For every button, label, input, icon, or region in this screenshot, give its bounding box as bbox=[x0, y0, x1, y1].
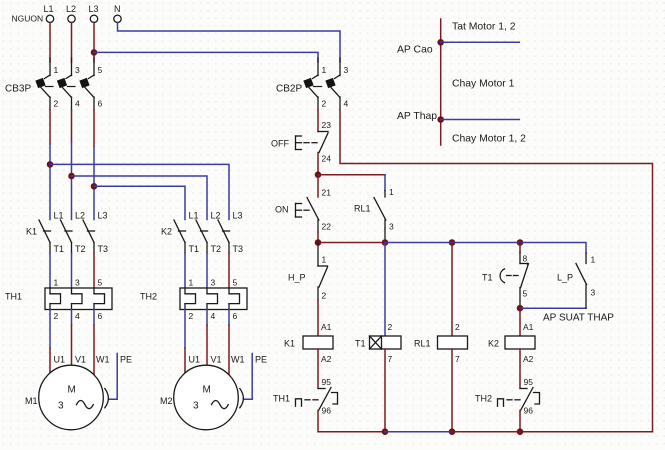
svg-text:L1: L1 bbox=[189, 211, 199, 221]
svg-text:CB3P: CB3P bbox=[5, 84, 31, 95]
svg-text:RL1: RL1 bbox=[354, 204, 371, 214]
timer coil T1 bbox=[370, 336, 402, 349]
wire feeder phase3 to K2 bbox=[94, 186, 185, 219]
svg-text:L2: L2 bbox=[66, 4, 76, 14]
node T1 bottom bbox=[382, 428, 389, 435]
svg-text:L2: L2 bbox=[75, 211, 85, 221]
svg-text:1: 1 bbox=[54, 278, 59, 288]
svg-text:AP Cao: AP Cao bbox=[397, 45, 433, 56]
wire K2 T2 to TH2 bbox=[206, 253, 208, 288]
wire K1 T2 to TH1 bbox=[71, 253, 73, 288]
wire PE motor 1 bbox=[109, 354, 117, 400]
legend node AP Cao bbox=[437, 39, 444, 46]
svg-text:A2: A2 bbox=[321, 354, 332, 364]
wire L2 to CB3P bbox=[71, 22, 73, 62]
svg-text:T1: T1 bbox=[355, 339, 366, 349]
svg-text:3: 3 bbox=[344, 65, 349, 75]
svg-text:M: M bbox=[203, 385, 211, 396]
svg-text:RL1: RL1 bbox=[414, 339, 431, 349]
thermal contact TH2 bbox=[498, 388, 540, 411]
breaker CB2P linkage dash bbox=[314, 86, 322, 88]
wire H_P to K1 coil bbox=[317, 287, 319, 336]
svg-text:95: 95 bbox=[322, 377, 332, 387]
svg-text:1: 1 bbox=[322, 255, 327, 265]
motor M2 bbox=[174, 365, 244, 430]
breaker CB2P pole 2 bbox=[325, 58, 340, 110]
overload relay TH1 body bbox=[45, 288, 112, 310]
node feeder junction phase3 bbox=[91, 183, 98, 190]
svg-text:U1: U1 bbox=[54, 355, 66, 365]
terminal N bbox=[114, 4, 121, 23]
svg-text:L1: L1 bbox=[44, 4, 54, 14]
wire K2 T1 to TH2 bbox=[184, 253, 186, 288]
timed contact T1 bbox=[519, 243, 521, 253]
control rail nodes bbox=[315, 239, 322, 246]
wire TH1 4 to motor V1 bbox=[71, 310, 73, 366]
svg-text:V1: V1 bbox=[75, 355, 86, 365]
svg-text:6: 6 bbox=[98, 99, 103, 109]
svg-text:PE: PE bbox=[120, 355, 132, 365]
wire CB3P pole3 out bbox=[93, 110, 95, 220]
svg-text:A2: A2 bbox=[523, 354, 534, 364]
svg-text:U1: U1 bbox=[189, 355, 201, 365]
legend stem wire bbox=[440, 19, 442, 145]
svg-text:TH1: TH1 bbox=[5, 292, 22, 302]
node RL1 bottom bbox=[449, 428, 456, 435]
svg-text:L3: L3 bbox=[98, 211, 108, 221]
wire TH1 contact to bottom rail bbox=[318, 411, 385, 432]
wire bottom rail maroon segment bbox=[452, 431, 653, 433]
svg-text:L1: L1 bbox=[54, 211, 64, 221]
svg-text:W1: W1 bbox=[231, 355, 245, 365]
breaker CB3P pole 3 bbox=[79, 58, 94, 110]
wire RL1 to rail bbox=[384, 228, 386, 243]
svg-text:2: 2 bbox=[322, 99, 327, 109]
wire T1 coil to bottom rail bbox=[384, 349, 386, 432]
motor M1 bbox=[39, 365, 109, 430]
svg-text:8: 8 bbox=[523, 254, 528, 264]
svg-text:22: 22 bbox=[322, 222, 332, 232]
svg-text:4: 4 bbox=[75, 99, 80, 109]
svg-text:3: 3 bbox=[75, 278, 80, 288]
terminal L2 bbox=[66, 4, 76, 23]
svg-text:M2: M2 bbox=[160, 396, 173, 406]
svg-text:NGUON: NGUON bbox=[12, 14, 44, 24]
svg-text:TH2: TH2 bbox=[475, 394, 492, 404]
wire OFF to junction bbox=[317, 153, 319, 175]
wire feeder phase2 to K2 bbox=[72, 176, 208, 220]
wire K2 T3 to TH2 bbox=[228, 253, 230, 288]
node feeder junction phase2 bbox=[68, 173, 75, 180]
contactor K2 pole 3 bbox=[218, 220, 230, 253]
svg-text:2: 2 bbox=[388, 322, 393, 332]
wire control rail left bbox=[318, 242, 385, 244]
legend wire AP Thap bbox=[441, 119, 520, 121]
svg-text:V1: V1 bbox=[211, 355, 222, 365]
wire K1 coil to TH1 contact bbox=[317, 349, 319, 388]
svg-text:W1: W1 bbox=[96, 355, 110, 365]
pushbutton ON contact bbox=[296, 198, 319, 221]
wire junction to ON bbox=[317, 175, 319, 197]
svg-text:T3: T3 bbox=[98, 244, 109, 254]
breaker CB2P pole 1 bbox=[303, 58, 318, 110]
wire CB3P pole2 out bbox=[71, 110, 73, 220]
svg-text:5: 5 bbox=[233, 278, 238, 288]
svg-text:7: 7 bbox=[455, 354, 460, 364]
breaker CB3P pole 2 bbox=[57, 58, 72, 110]
wire L1 to CB3P bbox=[49, 22, 51, 62]
node T1 LP K2 junction bbox=[517, 305, 524, 312]
svg-text:K2: K2 bbox=[488, 339, 499, 349]
legend wire AP Cao bbox=[441, 41, 520, 43]
wire T1 branch upper bbox=[384, 243, 386, 337]
wire bottom rail blue segment bbox=[385, 431, 452, 433]
svg-text:1: 1 bbox=[189, 278, 194, 288]
svg-text:L_P: L_P bbox=[557, 273, 573, 283]
wire junction to K2 coil bbox=[519, 308, 521, 336]
svg-text:H_P: H_P bbox=[288, 273, 306, 283]
svg-text:5: 5 bbox=[523, 289, 528, 299]
relay coil RL1 bbox=[438, 336, 468, 349]
node OFF bottom junction bbox=[315, 171, 322, 178]
svg-text:OFF: OFF bbox=[271, 139, 289, 149]
wire K1 T3 to TH1 bbox=[93, 253, 95, 288]
wire L3 to CB3P bbox=[93, 22, 95, 62]
svg-text:4: 4 bbox=[211, 311, 216, 321]
svg-text:T2: T2 bbox=[75, 244, 86, 254]
wire TH1 6 to motor W1 bbox=[93, 310, 95, 375]
svg-text:1: 1 bbox=[389, 187, 394, 197]
svg-text:M1: M1 bbox=[25, 396, 38, 406]
svg-text:N: N bbox=[114, 4, 121, 14]
legend node AP Thap bbox=[437, 116, 444, 123]
thermal contact TH1 bbox=[296, 388, 338, 411]
svg-text:TH1: TH1 bbox=[273, 394, 290, 404]
svg-text:L3: L3 bbox=[89, 4, 99, 14]
wire K1 T1 to TH1 bbox=[49, 253, 51, 288]
svg-text:7: 7 bbox=[388, 354, 393, 364]
wire RL1 coil to bottom rail bbox=[451, 349, 453, 432]
svg-text:TH2: TH2 bbox=[140, 292, 157, 302]
svg-text:6: 6 bbox=[98, 311, 103, 321]
wire control rail right bbox=[385, 243, 586, 254]
wire TH1 2 to motor U1 bbox=[49, 310, 51, 374]
breaker CB3P pole 1 bbox=[35, 58, 50, 110]
svg-text:21: 21 bbox=[322, 188, 332, 198]
svg-text:PE: PE bbox=[255, 355, 267, 365]
svg-text:2: 2 bbox=[54, 99, 59, 109]
pressure switch H_P contact bbox=[318, 243, 328, 288]
svg-text:6: 6 bbox=[233, 311, 238, 321]
wire ON to rail bbox=[317, 220, 319, 243]
svg-text:24: 24 bbox=[322, 154, 332, 164]
contactor K1 pole 1 bbox=[39, 220, 51, 253]
wire K2 coil to TH2 contact bbox=[519, 349, 521, 388]
wire junction to L_P bottom bbox=[520, 307, 586, 309]
coil K1 bbox=[303, 336, 333, 349]
svg-text:1: 1 bbox=[54, 65, 59, 75]
wire TH2 4 to motor V1 bbox=[206, 310, 208, 366]
wire TH2 6 to motor W1 bbox=[228, 310, 230, 375]
svg-text:5: 5 bbox=[98, 278, 103, 288]
wire L3 branch to CB2P pole 1 bbox=[94, 52, 318, 62]
svg-text:L2: L2 bbox=[211, 211, 221, 221]
pushbutton OFF contact bbox=[296, 132, 329, 153]
svg-text:2: 2 bbox=[189, 311, 194, 321]
svg-text:L3: L3 bbox=[233, 211, 243, 221]
svg-text:A1: A1 bbox=[523, 322, 534, 332]
breaker CB3P linkage dashes bbox=[46, 86, 76, 88]
svg-text:T1: T1 bbox=[54, 244, 65, 254]
svg-text:AP Thap: AP Thap bbox=[397, 111, 437, 122]
relay contact RL1 bbox=[374, 191, 386, 229]
svg-text:3: 3 bbox=[211, 278, 216, 288]
wire CB3P pole1 out bbox=[49, 110, 51, 220]
node feeder junction phase1 bbox=[47, 161, 54, 168]
svg-text:CB2P: CB2P bbox=[276, 84, 302, 95]
wire feeder phase1 to K2 bbox=[50, 164, 229, 219]
svg-text:K1: K1 bbox=[284, 339, 295, 349]
svg-text:3: 3 bbox=[193, 401, 199, 412]
svg-text:23: 23 bbox=[322, 120, 332, 130]
svg-text:T3: T3 bbox=[233, 244, 244, 254]
pressure switch L_P contact bbox=[576, 253, 587, 308]
svg-text:T2: T2 bbox=[211, 244, 222, 254]
wire junction to RL1 contact bbox=[318, 175, 385, 191]
node L3 branch junction bbox=[91, 49, 98, 56]
svg-text:3: 3 bbox=[389, 222, 394, 232]
svg-text:3: 3 bbox=[58, 401, 64, 412]
svg-text:K1: K1 bbox=[26, 227, 37, 237]
contactor K2 pole 2 bbox=[196, 220, 208, 253]
svg-text:Chay Motor 1, 2: Chay Motor 1, 2 bbox=[452, 134, 526, 145]
wire TH2 2 to motor U1 bbox=[184, 310, 186, 374]
svg-text:4: 4 bbox=[75, 311, 80, 321]
svg-text:2: 2 bbox=[455, 322, 460, 332]
svg-text:Tat Motor 1, 2: Tat Motor 1, 2 bbox=[452, 22, 516, 33]
svg-text:AP SUAT THAP: AP SUAT THAP bbox=[543, 313, 614, 324]
wire TH2 contact to bottom rail bbox=[519, 411, 521, 432]
svg-text:K2: K2 bbox=[161, 227, 172, 237]
svg-text:M: M bbox=[68, 385, 76, 396]
overload relay TH2 body bbox=[180, 288, 247, 310]
coil K2 bbox=[505, 336, 535, 349]
contactor K2 pole 1 bbox=[174, 220, 186, 253]
svg-text:3: 3 bbox=[75, 65, 80, 75]
svg-text:95: 95 bbox=[524, 377, 534, 387]
wire neutral return loop bbox=[340, 110, 653, 432]
svg-text:ON: ON bbox=[275, 205, 289, 215]
svg-text:A1: A1 bbox=[321, 322, 332, 332]
svg-text:2: 2 bbox=[322, 291, 327, 301]
svg-text:1: 1 bbox=[591, 255, 596, 265]
wire PE motor 2 bbox=[244, 354, 252, 400]
contactor K1 pole 3 bbox=[83, 220, 95, 253]
svg-text:Chay Motor 1: Chay Motor 1 bbox=[452, 79, 515, 90]
wire N to CB2P pole 2 bbox=[118, 22, 341, 62]
node TH2 bottom bbox=[517, 428, 524, 435]
svg-text:2: 2 bbox=[54, 311, 59, 321]
svg-text:1: 1 bbox=[322, 65, 327, 75]
svg-text:T1: T1 bbox=[189, 244, 200, 254]
svg-text:4: 4 bbox=[344, 99, 349, 109]
contactor K1 pole 2 bbox=[61, 220, 73, 253]
terminal L3 bbox=[89, 4, 99, 23]
svg-text:96: 96 bbox=[524, 406, 534, 416]
terminal L1 bbox=[44, 4, 54, 23]
svg-text:3: 3 bbox=[591, 288, 596, 298]
svg-text:5: 5 bbox=[98, 65, 103, 75]
svg-text:T1: T1 bbox=[482, 273, 493, 283]
svg-text:96: 96 bbox=[322, 406, 332, 416]
wire RL1 branch upper bbox=[451, 243, 453, 337]
wire CB2P 2 to OFF bbox=[317, 110, 319, 132]
